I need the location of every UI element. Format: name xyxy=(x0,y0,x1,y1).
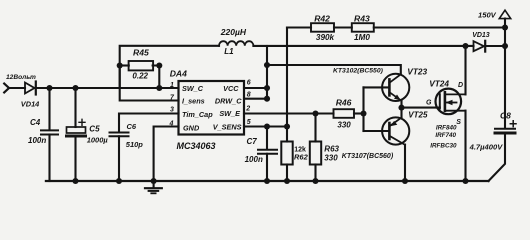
transistor Q3 VT24 mosfet xyxy=(436,89,462,115)
wire vertical A vcc feed xyxy=(266,46,268,99)
wire VT25 collector to ground xyxy=(404,145,406,181)
svg-text:L1: L1 xyxy=(224,47,234,56)
wire bases vertical xyxy=(362,87,364,131)
capacitor C4 xyxy=(48,88,50,130)
capacitor C6 xyxy=(110,132,129,134)
op-amp U1 : IC DA4 box MC34063 xyxy=(179,81,245,135)
svg-text:150V: 150V xyxy=(478,11,497,20)
svg-text:V_SENS: V_SENS xyxy=(213,123,242,132)
capacitor C5 (electrolytic) xyxy=(74,88,76,127)
node collector wire junction xyxy=(264,62,270,68)
wire main rail VD14 to IC pin1 xyxy=(36,87,179,89)
ground symbol xyxy=(153,181,155,188)
node R63 ground junction xyxy=(312,178,318,184)
node source ground junction xyxy=(462,178,468,184)
wire ground rail xyxy=(46,180,489,182)
svg-text:C7: C7 xyxy=(247,137,258,146)
svg-text:KT3107(BC560): KT3107(BC560) xyxy=(342,153,394,160)
transistor Q1 VT23 KT3102 npn xyxy=(382,74,409,101)
svg-text:VD13: VD13 xyxy=(472,32,490,39)
wire R42 feedback vertical xyxy=(286,28,288,127)
svg-text:C6: C6 xyxy=(127,122,137,131)
svg-text:12Вольт: 12Вольт xyxy=(6,74,36,81)
wire top rail right segment to VD13 xyxy=(253,45,473,47)
svg-text:KT3102(BC550): KT3102(BC550) xyxy=(333,67,384,74)
wire drain up xyxy=(464,46,466,94)
node C6 ground junction xyxy=(116,178,122,184)
svg-text:G: G xyxy=(426,99,432,106)
diode VD13 xyxy=(474,41,485,51)
svg-text:C8: C8 xyxy=(500,111,511,121)
resistor R43 xyxy=(352,23,374,32)
capacitor C7 xyxy=(266,127,268,150)
wire VT23 collector to vcc rail xyxy=(267,65,401,75)
svg-text:510p: 510p xyxy=(126,140,144,149)
node C7 ground junction xyxy=(264,178,270,184)
svg-text:VT23: VT23 xyxy=(407,67,427,77)
svg-text:C4: C4 xyxy=(30,118,41,127)
node VD13 cathode junction xyxy=(502,43,508,49)
svg-text:DRW_C: DRW_C xyxy=(215,97,242,106)
node junction C5 xyxy=(72,85,78,91)
wire top rail left segment xyxy=(120,46,219,88)
svg-text:IRFBC30: IRFBC30 xyxy=(430,143,457,150)
node C5 ground junction xyxy=(72,178,78,184)
wire R42 rail top xyxy=(287,26,311,28)
inductor L1 xyxy=(219,41,253,46)
svg-text:5: 5 xyxy=(247,119,251,126)
wire pin4 GND xyxy=(154,127,179,182)
svg-text:100n: 100n xyxy=(28,136,46,145)
svg-text:2: 2 xyxy=(245,106,250,113)
svg-text:SW_E: SW_E xyxy=(219,109,241,118)
wire R45 right xyxy=(153,66,160,89)
svg-text:1M0: 1M0 xyxy=(354,33,370,42)
node base junction xyxy=(360,110,366,116)
svg-text:4: 4 xyxy=(169,120,174,127)
resistor R46 xyxy=(334,109,355,118)
svg-text:C5: C5 xyxy=(89,125,100,134)
wire pin5 V_SENS xyxy=(244,125,287,127)
node GND junction xyxy=(151,178,157,184)
svg-text:VD14: VD14 xyxy=(21,100,40,109)
node emitters gate junction xyxy=(398,105,404,111)
svg-text:R45: R45 xyxy=(133,48,149,58)
resistor R62 xyxy=(286,127,288,142)
svg-text:0.22: 0.22 xyxy=(132,72,148,81)
svg-text:100n: 100n xyxy=(245,155,263,164)
node C7 top junction xyxy=(264,123,270,129)
wire source down xyxy=(464,111,466,181)
capacitor C8 xyxy=(495,128,515,130)
node drain junction xyxy=(462,43,468,49)
wire pin2 SW_E to R46 xyxy=(244,112,334,114)
svg-text:IRF740: IRF740 xyxy=(435,132,456,139)
wire VT25 base xyxy=(364,130,389,132)
node R45 left junction xyxy=(117,62,123,68)
svg-text:220µH: 220µH xyxy=(220,27,247,37)
node 150V terminal xyxy=(499,10,510,18)
svg-text:390k: 390k xyxy=(316,33,335,42)
svg-text:330: 330 xyxy=(337,120,351,129)
svg-text:R46: R46 xyxy=(336,98,352,108)
wire between R42 R43 xyxy=(334,26,352,28)
wire R46 right to bases xyxy=(354,112,364,114)
wire pin8 DRW_C xyxy=(244,98,267,100)
svg-text:1000µ: 1000µ xyxy=(87,136,109,145)
node V_SENS divider junction xyxy=(284,123,290,129)
svg-text:R62: R62 xyxy=(294,152,309,161)
node VT25 emitter ground junction xyxy=(402,178,408,184)
svg-text:SW_C: SW_C xyxy=(182,84,204,93)
resistor R42 xyxy=(311,23,334,32)
resistor R45 xyxy=(129,61,154,70)
svg-text:6: 6 xyxy=(247,79,251,86)
wire pin3 Tim_Cap to C6 xyxy=(119,114,179,133)
svg-text:3: 3 xyxy=(170,107,174,114)
node R45 right junction xyxy=(156,62,162,68)
svg-text:I_sens: I_sens xyxy=(182,97,205,106)
svg-text:VT24: VT24 xyxy=(429,79,449,89)
node R63 top junction xyxy=(312,110,318,116)
wire main input rail left of VD14 xyxy=(9,87,25,89)
transistor Q2 VT25 KT3107 pnp xyxy=(382,117,409,144)
node R62 ground junction xyxy=(284,178,290,184)
resistor R63 xyxy=(314,114,316,142)
svg-text:1: 1 xyxy=(170,82,174,89)
svg-text:DA4: DA4 xyxy=(170,69,187,79)
svg-text:Tim_Cap: Tim_Cap xyxy=(182,110,213,119)
svg-text:330: 330 xyxy=(324,154,338,163)
svg-text:R63: R63 xyxy=(324,144,339,153)
diode VD14 xyxy=(25,83,35,94)
node 150V R43 junction xyxy=(502,24,508,30)
svg-text:R43: R43 xyxy=(354,13,370,23)
wire VT23 base xyxy=(364,86,389,88)
svg-text:MC34063: MC34063 xyxy=(177,141,216,151)
wire R43 to 150V rail xyxy=(374,26,505,28)
svg-text:IRF840: IRF840 xyxy=(436,125,457,132)
svg-text:GND: GND xyxy=(183,124,200,133)
svg-text:4.7µ400V: 4.7µ400V xyxy=(469,142,504,151)
svg-text:R42: R42 xyxy=(314,13,330,23)
node junction R45 right / pin1 xyxy=(156,85,162,91)
node pin6 junction xyxy=(264,85,270,91)
wire pin7 I_sens from R45-left vertical xyxy=(120,66,179,101)
svg-text:8: 8 xyxy=(247,92,251,99)
wire 150V vertical xyxy=(504,19,506,129)
wire pin6 VCC xyxy=(244,87,267,89)
svg-text:S: S xyxy=(456,119,461,126)
svg-text:VCC: VCC xyxy=(223,84,239,93)
svg-text:D: D xyxy=(458,82,463,89)
svg-text:VT25: VT25 xyxy=(408,111,428,120)
wire gate xyxy=(402,107,440,109)
node input chevron xyxy=(4,84,9,93)
node pin8 junction xyxy=(264,96,270,102)
node junction C4 xyxy=(46,85,52,91)
wire R45 left xyxy=(120,64,129,66)
